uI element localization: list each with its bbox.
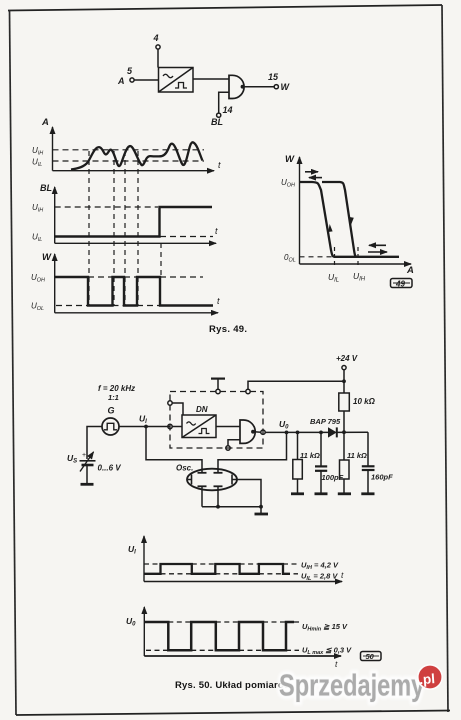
plot U_0 axes xyxy=(144,607,341,656)
hysteresis top arrow right xyxy=(305,171,318,173)
svg-text:0...6 V: 0...6 V xyxy=(98,464,122,473)
plot U_0 upper dashed segments xyxy=(168,621,300,623)
svg-text:10 kΩ: 10 kΩ xyxy=(353,397,376,406)
wire node X down 11k#2 xyxy=(343,432,345,460)
plot U_0 lower dashed segments xyxy=(146,649,299,651)
svg-text:14: 14 xyxy=(223,105,233,115)
svg-text:BL: BL xyxy=(40,183,52,193)
wire box to +24V rail xyxy=(248,381,344,389)
scope plate bottom-left xyxy=(198,486,207,506)
svg-text:49: 49 xyxy=(395,279,405,288)
scope plate right xyxy=(232,475,237,485)
hysteresis top arrow left xyxy=(309,177,322,179)
wire down to 11k#1 xyxy=(297,432,299,459)
junction dot 100pF xyxy=(319,431,323,435)
svg-text:A: A xyxy=(117,76,125,86)
up arrowhead on left branch xyxy=(328,224,332,232)
dashed guide BL step to W xyxy=(160,243,162,277)
hysteresis right branch xyxy=(322,182,357,257)
svg-text:11 kΩ: 11 kΩ xyxy=(300,451,320,460)
svg-text:W: W xyxy=(42,252,52,263)
wire to 160pF branch xyxy=(367,432,369,466)
hysteresis graph W axis xyxy=(300,157,412,264)
junction dot node X xyxy=(342,430,346,434)
svg-text:f = 20 kHz: f = 20 kHz xyxy=(98,384,135,393)
junction dot 11k#1 xyxy=(296,431,300,435)
wire U_0 down to scope xyxy=(218,432,287,472)
wire gate to terminal xyxy=(253,431,261,434)
page frame right border xyxy=(442,5,448,712)
plot U_0 square waveform xyxy=(144,622,294,650)
resistor 10k xyxy=(339,393,350,411)
plot BL signal xyxy=(55,207,212,237)
plot BL U_IL dashed tail xyxy=(160,236,213,238)
dashed guide line 3 xyxy=(124,151,126,305)
svg-text:4: 4 xyxy=(153,33,159,43)
wire into DN xyxy=(172,426,182,428)
ground 160pF xyxy=(361,492,374,495)
ground 100pF xyxy=(315,492,328,495)
plot U_I axes xyxy=(144,536,342,582)
terminal top-left of box xyxy=(216,389,220,393)
source Us adjust arrow xyxy=(80,452,94,472)
wire G to Us xyxy=(87,427,102,460)
svg-text:100pF: 100pF xyxy=(322,473,344,482)
wire U_0 line xyxy=(265,431,328,433)
converter block DN (Rys.49) xyxy=(159,68,194,93)
scope plate top-left xyxy=(198,472,207,474)
wire diode to node X xyxy=(337,431,368,433)
ground under Us xyxy=(81,483,94,486)
dashed enclosure box xyxy=(170,392,263,449)
bottom arrow right xyxy=(368,251,387,253)
gate input 2 wire from BL xyxy=(219,92,229,113)
svg-text:A: A xyxy=(406,265,414,276)
plot W square waveform xyxy=(55,277,213,306)
plot A U_IH dashed level xyxy=(53,149,205,151)
svg-text:Rys. 50. Układ pomiarow: Rys. 50. Układ pomiarow xyxy=(175,680,292,691)
hysteresis high branch xyxy=(300,182,335,257)
down arrowhead on right branch xyxy=(349,217,354,225)
svg-text:G: G xyxy=(108,406,115,416)
gate output node dot xyxy=(241,85,245,89)
dashed guide line 2 xyxy=(113,151,115,305)
svg-text:Osc.: Osc. xyxy=(176,464,193,473)
wire U_I node down to scope xyxy=(146,427,202,473)
scope plate bottom-right xyxy=(214,486,223,506)
svg-text:+: + xyxy=(82,452,86,459)
wire 11k#2 to ground xyxy=(343,479,345,493)
plot A: axes xyxy=(53,127,215,171)
plot A U_IL dashed level xyxy=(53,160,205,162)
figure tag box 49 xyxy=(391,279,413,289)
svg-text:Rys. 49.: Rys. 49. xyxy=(209,324,247,335)
svg-text:160pF: 160pF xyxy=(371,473,393,482)
bottom arrow left xyxy=(369,244,386,246)
wire 100pF to ground xyxy=(320,471,322,493)
svg-text:Sprzedajemy: Sprzedajemy xyxy=(279,667,425,702)
diode BAP 795 xyxy=(328,427,337,437)
AND gate (Rys.49) xyxy=(229,75,244,98)
dashed guide line 1 xyxy=(88,151,90,305)
svg-text:A: A xyxy=(41,117,49,128)
resistor 11k#2 xyxy=(340,460,350,479)
wire +24V terminal down xyxy=(343,370,345,393)
plot U_I upper dashed segments xyxy=(144,563,298,565)
terminal left edge input xyxy=(168,424,172,428)
wire scope bottom pins join xyxy=(202,506,261,508)
page frame bottom border xyxy=(16,711,450,716)
figure tag box 50 xyxy=(361,652,382,662)
plot A analog waveform xyxy=(71,142,202,169)
hysteresis low dashed xyxy=(300,256,334,258)
plot BL U_IH dashed level xyxy=(55,206,158,208)
plot U_I square waveform xyxy=(144,564,290,574)
junction dot +24V rail xyxy=(342,379,346,383)
svg-text:W: W xyxy=(285,154,295,165)
dashed guide line 4 xyxy=(137,151,139,305)
svg-text:.pl: .pl xyxy=(419,671,436,687)
gate output dot xyxy=(251,430,255,434)
pin 4 terminal xyxy=(156,45,160,68)
ground scope xyxy=(255,513,269,516)
wire 11k#1 to ground xyxy=(297,479,299,493)
input terminal A pin 5 xyxy=(130,78,159,82)
terminal right edge output xyxy=(261,430,265,434)
plot W U_OL dashed segments xyxy=(56,305,160,307)
plot W U_OH dashed segments xyxy=(88,276,203,278)
AND gate (Rys.50) xyxy=(240,420,255,443)
resistor 11k#1 xyxy=(293,460,303,480)
terminal left edge upper xyxy=(168,401,172,405)
svg-text:11 kΩ: 11 kΩ xyxy=(347,451,367,460)
converter block DN (Rys.50) xyxy=(182,415,216,438)
oscilloscope CRT ellipse xyxy=(187,469,237,491)
terminal bottom of box xyxy=(226,446,230,450)
svg-text:+24 V: +24 V xyxy=(336,354,358,363)
capacitor 100pF xyxy=(315,466,327,470)
wire 160pF to ground xyxy=(367,470,369,493)
svg-text:50: 50 xyxy=(366,652,375,661)
wire terminal to gate input 2 xyxy=(228,440,240,446)
plot U_I lower dashed segments xyxy=(161,573,299,575)
plot W: axes xyxy=(55,254,218,313)
wire G to U_I node xyxy=(119,426,170,428)
source Us plates xyxy=(80,461,96,465)
svg-text:1:1: 1:1 xyxy=(108,393,119,402)
svg-text:BL: BL xyxy=(211,117,223,127)
terminal top-right of box xyxy=(246,389,250,393)
U_IL tick dashed xyxy=(334,247,336,267)
svg-text:15: 15 xyxy=(268,72,279,82)
node U_I dot xyxy=(144,425,148,429)
page frame top border xyxy=(8,5,442,11)
ground 11k#2 xyxy=(338,492,351,495)
plot BL: axes xyxy=(55,187,216,243)
wire block to gate xyxy=(193,78,229,80)
ground 11k#1 xyxy=(291,492,304,495)
scope plate left xyxy=(188,475,192,485)
test point stub xyxy=(211,379,225,390)
terminal BL pin 14 xyxy=(217,113,221,117)
scope plate top-right xyxy=(214,472,223,474)
wire down to 100pF xyxy=(320,432,322,466)
U_IH tick dashed xyxy=(357,247,359,267)
junction dot bottom pins xyxy=(216,505,220,509)
capacitor 160pF xyxy=(362,466,375,470)
wire terminal to DN top xyxy=(172,403,183,415)
output terminal W pin 15 xyxy=(274,85,278,89)
generator G circle xyxy=(102,418,119,435)
wire DN to gate xyxy=(216,426,240,428)
hysteresis low line xyxy=(334,256,399,258)
svg-text:DN: DN xyxy=(196,405,208,414)
wire Us to ground xyxy=(86,465,88,484)
svg-text:BAP 795: BAP 795 xyxy=(310,417,341,426)
wire gate to W terminal xyxy=(243,86,275,88)
page frame left border xyxy=(10,10,17,715)
junction dot rail xyxy=(259,505,263,509)
wire 10k down to node xyxy=(343,411,345,432)
junction dot scope branch xyxy=(285,431,289,435)
+24V terminal xyxy=(342,366,346,370)
wire scope right to ground rail xyxy=(237,480,261,514)
watermark sprzedajemy.pl xyxy=(279,665,442,702)
generator pulse symbol xyxy=(104,423,117,430)
